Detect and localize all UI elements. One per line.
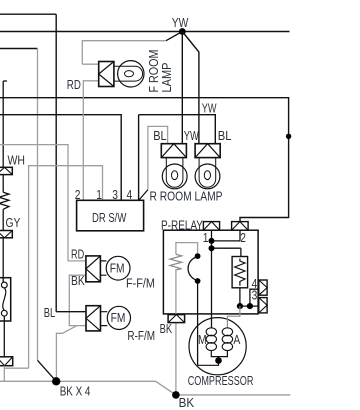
wire diagonal YW to lamp2 [182,32,199,144]
wire BL to R fan [56,311,86,313]
svg-text:FM: FM [110,263,125,276]
svg-text:F ROOM: F ROOM [147,50,161,93]
compressor circle [189,318,246,375]
connector relay 3 [259,298,267,313]
node dot PTC junction [237,303,243,309]
svg-text:DR S/W: DR S/W [92,212,127,226]
node dot BK bus left [52,377,60,385]
wire rail y=97.7 YW to relay [0,98,289,222]
motor R fan FM [101,306,131,329]
wire rail y=114.7 right BL to lamp2 [139,115,216,144]
svg-text:R-F/M: R-F/M [127,330,155,343]
relay box [163,230,258,314]
wire A coil elbow [227,306,240,328]
node dot BK bus right [172,391,180,399]
lamp F room lamp [114,61,144,87]
svg-text:3: 3 [112,189,118,202]
wire BL vertical from top rail [55,14,57,312]
connector F room lamp [99,62,114,87]
resistor defrost heater [0,192,9,209]
svg-text:BK: BK [71,275,85,288]
inductor M coil [206,328,216,351]
wire gray vertical x=37.5 [37,49,39,361]
lamp R room lamp 1 [162,158,187,189]
connector relay 4 [259,280,267,295]
wire switch to compressor common [197,283,199,365]
wire F lamp upper lead [82,63,98,65]
wire coil to BK connector [175,269,177,395]
node F ROOM LAMP label [147,50,174,93]
inductor A coil [222,328,232,351]
svg-text:BK: BK [160,323,173,337]
wire YW left branch to F lamp [82,41,166,64]
relay coil [170,254,182,270]
resistor PTC box [232,257,248,288]
connector R fan motor [86,306,101,331]
svg-text:YW: YW [184,130,200,144]
relay coil gray wire [176,243,198,255]
wire BK from F fan [69,275,86,325]
wire DR pin4 diagonal [139,190,148,200]
wire RD F room lamp [83,81,98,201]
wire top rail 2 YW [0,31,290,33]
wire GY to thermostat [2,238,4,282]
connector relay pin2 top [232,222,249,231]
node dot pin junction 1 [209,238,215,244]
lamp R room lamp 2 [195,158,220,189]
svg-text:BK: BK [179,396,194,410]
svg-text:FM: FM [111,312,126,325]
wire DR pin4 vertical [138,115,140,200]
motor F fan FM [100,256,130,280]
wire diagonal YW to left branch [166,32,182,41]
node dot on right vertical [286,134,291,139]
svg-text:RD: RD [71,248,84,262]
node dot compressor common [215,357,222,364]
svg-text:WH: WH [8,155,25,168]
svg-text:BL: BL [153,129,167,143]
connector GY [0,231,12,238]
switch DR S/W box [77,200,144,231]
svg-text:A: A [233,334,240,347]
svg-text:YW: YW [172,17,189,30]
node YW junction dot [179,28,186,35]
wire to connector 4 [250,289,259,306]
svg-text:3: 3 [252,290,258,303]
wire top rail 1 [0,13,56,15]
svg-text:BK X 4: BK X 4 [60,385,91,398]
wire BK diagonal to bus [56,326,77,382]
svg-text:BL: BL [44,307,55,321]
wire branch to pin1 drop [4,367,28,369]
node dot connector4 junction [247,303,253,309]
wire heater to GY [2,209,4,230]
svg-text:LAMP: LAMP [160,62,174,92]
wire YW vertical to lamp1 [181,32,183,144]
svg-text:RD: RD [67,79,81,92]
thermostat box [0,278,11,321]
svg-text:YW: YW [202,102,217,116]
wire diagonal to BK bus dot [38,360,57,381]
svg-text:1: 1 [203,232,209,245]
relay switch arc [188,257,196,280]
wire BL gray path to lamp1 [148,126,168,189]
node dot pin junction 2 [209,245,215,251]
wire RD to F fan [0,145,86,261]
connector R room lamp 2 [195,144,220,158]
connector F fan motor [86,256,101,282]
wire WH to heater [2,175,4,193]
wire left chain stub [3,80,7,82]
svg-text:2: 2 [75,189,81,202]
svg-text:4: 4 [127,189,133,202]
wire PTC bottom to dots [239,288,241,306]
connector R room lamp 1 [161,144,186,158]
thermostat contacts and bimetal [1,282,7,316]
svg-text:R ROOM LAMP: R ROOM LAMP [150,190,223,204]
svg-text:GY: GY [6,217,21,230]
wire relay pins node [212,230,241,327]
connector relay pin1 top [203,222,219,231]
connector relay coil BK [168,315,185,323]
svg-text:M: M [198,334,207,347]
resistor PTC zigzag [235,259,245,286]
wire rail y=114.7 left to DR pin3 [0,115,121,201]
svg-text:F-F/M: F-F/M [126,277,155,291]
wire thermostat to bottom connector [3,316,5,357]
connector WH [0,167,12,174]
svg-text:COMPRESSOR: COMPRESSOR [188,375,254,389]
svg-text:1: 1 [96,189,102,202]
wire rail y=48.5 [0,48,38,50]
connector bottom left [0,357,13,366]
wire BK bus left [0,381,290,395]
relay switch contact bottom [195,278,201,284]
svg-text:BL: BL [218,128,232,143]
wire DR pin1 gray path [29,166,103,369]
wire coil bottoms join [198,351,228,365]
wire left chain upper [2,81,4,167]
wire dots to connector 3 [240,305,259,307]
wire connector to bus [3,366,5,382]
relay switch contact top [195,253,201,259]
svg-text:2: 2 [240,232,246,245]
